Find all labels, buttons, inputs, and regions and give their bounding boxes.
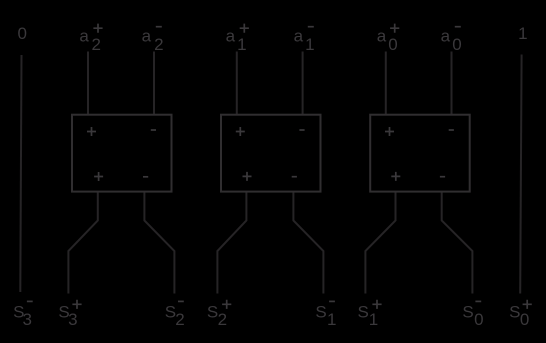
svg-text:S: S [207, 302, 218, 321]
svg-text:1: 1 [369, 310, 378, 329]
svg-text:S: S [462, 302, 473, 321]
svg-text:S: S [358, 302, 369, 321]
svg-text:0: 0 [520, 310, 529, 329]
svg-text:0: 0 [18, 24, 27, 43]
svg-text:3: 3 [68, 310, 77, 329]
svg-text:a: a [377, 27, 387, 46]
svg-text:a: a [79, 27, 89, 46]
svg-text:S: S [315, 302, 326, 321]
svg-text:3: 3 [22, 310, 31, 329]
svg-text:a: a [226, 27, 236, 46]
svg-text:S: S [509, 302, 520, 321]
svg-text:0: 0 [388, 35, 397, 54]
svg-text:1: 1 [305, 35, 314, 54]
svg-text:0: 0 [474, 310, 483, 329]
svg-text:a: a [441, 27, 451, 46]
svg-text:a: a [294, 27, 304, 46]
svg-text:2: 2 [175, 310, 184, 329]
svg-text:a: a [142, 27, 152, 46]
svg-text:2: 2 [154, 35, 163, 54]
svg-text:1: 1 [327, 310, 336, 329]
svg-text:1: 1 [237, 35, 246, 54]
svg-text:0: 0 [452, 35, 461, 54]
svg-text:2: 2 [218, 310, 227, 329]
svg-text:1: 1 [518, 24, 527, 43]
svg-text:2: 2 [91, 35, 100, 54]
